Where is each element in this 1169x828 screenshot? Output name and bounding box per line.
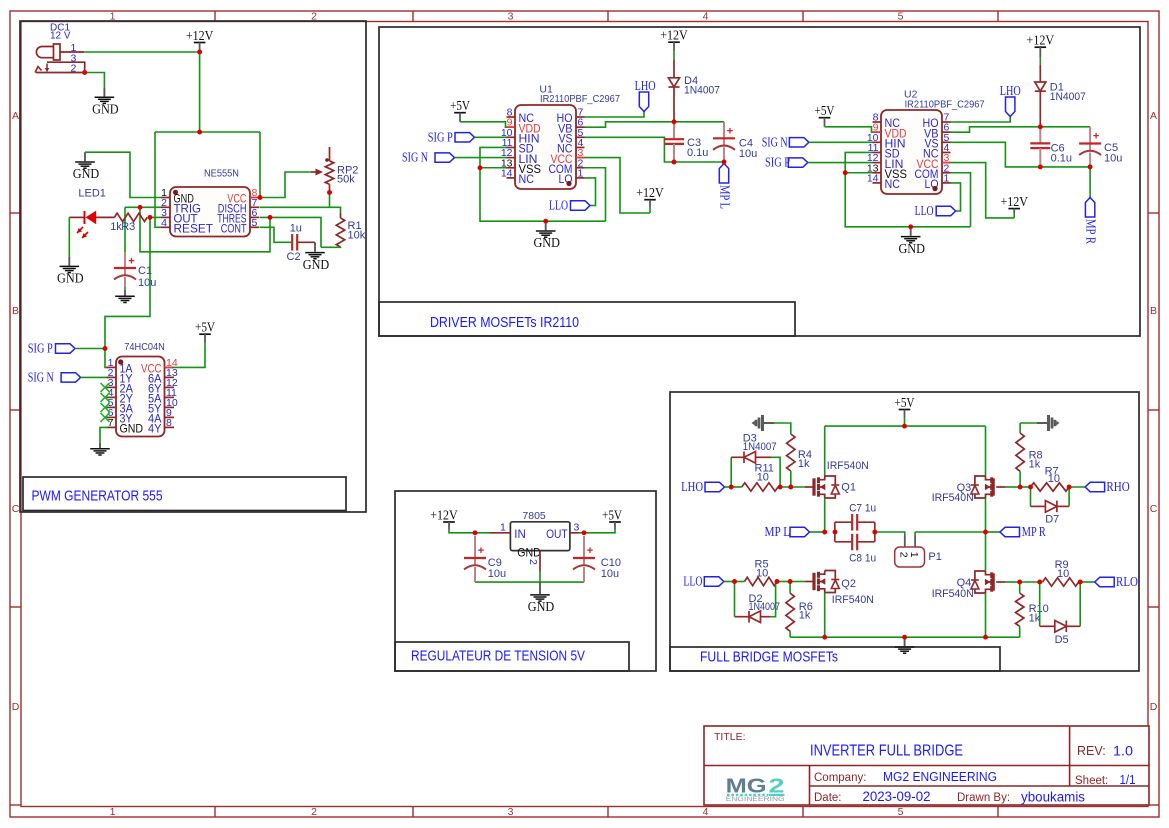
svg-text:1: 1 [110,806,116,818]
svg-text:LED1: LED1 [78,188,106,200]
svg-text:GND: GND [92,101,119,116]
svg-text:R3: R3 [121,221,135,233]
svg-text:+5V: +5V [450,98,470,113]
svg-text:IR2110PBF_C2967: IR2110PBF_C2967 [905,98,985,110]
svg-text:10u: 10u [488,568,506,580]
svg-text:GND: GND [533,235,560,250]
svg-text:10u: 10u [1104,152,1122,164]
svg-text:Q2: Q2 [841,578,856,590]
svg-text:NC: NC [885,177,901,191]
svg-text:+5V: +5V [602,507,622,522]
svg-text:+5V: +5V [195,320,215,335]
svg-text:Q1: Q1 [841,482,856,494]
svg-text:LLO: LLO [549,198,568,213]
svg-text:14: 14 [501,167,513,179]
svg-text:4: 4 [161,217,167,229]
svg-text:NC: NC [519,172,535,186]
svg-text:10: 10 [757,472,769,484]
svg-text:14: 14 [867,172,879,184]
svg-text:D: D [1150,701,1158,713]
svg-text:SIG N: SIG N [402,150,428,165]
svg-text:IRF540N: IRF540N [932,588,974,600]
svg-text:REGULATEUR DE TENSION 5V: REGULATEUR DE TENSION 5V [411,649,585,665]
svg-text:LHO: LHO [1000,83,1021,98]
svg-text:+: + [727,125,733,137]
svg-text:+12V: +12V [660,28,688,43]
svg-text:+12V: +12V [636,185,664,200]
svg-text:1: 1 [944,172,950,184]
svg-text:1: 1 [500,522,506,534]
svg-text:2: 2 [898,552,910,558]
svg-text:Date:: Date: [814,792,842,804]
svg-text:INVERTER FULL BRIDGE: INVERTER FULL BRIDGE [810,743,963,760]
svg-text:7805: 7805 [522,510,546,522]
svg-text:SIG N: SIG N [28,369,54,384]
svg-text:GND: GND [303,257,330,272]
svg-text:B: B [12,305,19,317]
svg-text:12 V: 12 V [50,31,71,42]
svg-text:A: A [12,110,19,122]
svg-text:3: 3 [574,522,580,534]
svg-text:MG2 ENGINEERING: MG2 ENGINEERING [883,769,997,784]
svg-text:+5V: +5V [815,103,835,118]
svg-text:3: 3 [508,806,514,818]
svg-text:10: 10 [1057,568,1069,580]
svg-text:GND: GND [528,599,555,614]
svg-text:2: 2 [71,63,77,75]
svg-text:SIG P: SIG P [428,129,453,144]
svg-text:LLO: LLO [683,574,702,589]
svg-text:10u: 10u [601,568,619,580]
svg-text:NE555N: NE555N [204,168,239,180]
svg-text:SIG N: SIG N [762,134,788,149]
svg-text:1k: 1k [1029,459,1041,471]
svg-text:1: 1 [578,167,584,179]
svg-text:1N4007: 1N4007 [749,601,781,613]
svg-text:1k: 1k [799,610,811,622]
svg-text:1N4007: 1N4007 [1050,91,1086,103]
svg-text:10u: 10u [739,148,757,160]
svg-text:MP L: MP L [765,524,791,539]
svg-text:C: C [1150,503,1158,515]
svg-text:Sheet:: Sheet: [1075,775,1108,787]
svg-text:LLO: LLO [915,203,934,218]
svg-text:2: 2 [527,559,539,565]
svg-text:+: + [478,545,484,557]
svg-text:2: 2 [311,806,317,818]
svg-text:74HC04N: 74HC04N [124,341,165,353]
svg-text:C8 1u: C8 1u [849,553,876,565]
svg-text:RESET: RESET [174,222,214,236]
svg-text:GND: GND [73,166,100,181]
svg-text:1: 1 [908,552,920,558]
svg-text:GND: GND [120,422,144,436]
svg-text:1.0: 1.0 [1113,743,1133,759]
svg-text:+: + [587,545,593,557]
svg-text:IN: IN [514,527,526,541]
svg-text:C7 1u: C7 1u [849,503,876,515]
svg-text:5: 5 [252,217,258,229]
svg-text:5: 5 [898,10,904,22]
svg-text:5: 5 [898,806,904,818]
svg-text:1k: 1k [798,458,810,470]
svg-text:+12V: +12V [1000,194,1028,209]
svg-text:4: 4 [703,10,709,22]
svg-text:+12V: +12V [186,28,214,43]
svg-text:LHO: LHO [681,479,703,494]
svg-text:ENGINEERING: ENGINEERING [726,796,785,803]
svg-text:LHO: LHO [635,78,656,93]
svg-text:7: 7 [108,417,114,429]
svg-text:+: + [128,256,134,268]
svg-text:SIG P: SIG P [28,341,53,356]
svg-text:P1: P1 [928,551,941,563]
svg-text:3: 3 [508,10,514,22]
svg-text:MP R: MP R [1084,219,1099,244]
svg-text:1N4007: 1N4007 [684,85,720,97]
svg-text:GND: GND [517,546,541,560]
svg-text:A: A [1150,110,1157,122]
svg-text:1u: 1u [290,223,302,235]
svg-text:TITLE:: TITLE: [714,731,746,743]
svg-text:IRF540N: IRF540N [832,594,874,606]
svg-text:GND: GND [57,271,84,286]
svg-text:GND: GND [898,241,925,256]
svg-text:PWM GENERATOR 555: PWM GENERATOR 555 [32,489,163,505]
svg-text:CONT: CONT [221,222,247,236]
svg-text:D: D [12,701,20,713]
svg-text:1/1: 1/1 [1120,772,1136,787]
svg-text:DRIVER MOSFETs IR2110: DRIVER MOSFETs IR2110 [430,315,579,331]
svg-text:+5V: +5V [895,395,915,410]
svg-text:8: 8 [166,417,172,429]
svg-text:2023-09-02: 2023-09-02 [863,789,931,804]
svg-text:D7: D7 [1045,513,1059,525]
svg-text:4Y: 4Y [148,422,162,436]
svg-text:+: + [1093,131,1099,143]
svg-text:D5: D5 [1055,634,1069,646]
svg-text:OUT: OUT [546,527,568,541]
svg-text:+12V: +12V [430,507,458,522]
svg-text:10: 10 [1048,473,1060,485]
svg-text:1N4007: 1N4007 [743,441,777,453]
svg-text:MP R: MP R [1022,524,1046,539]
svg-text:IRF540N: IRF540N [932,492,974,504]
svg-text:+12V: +12V [1027,33,1055,48]
svg-text:RLO: RLO [1116,574,1138,589]
svg-text:RHO: RHO [1106,479,1130,494]
svg-text:10u: 10u [138,277,156,289]
svg-text:C: C [12,503,20,515]
svg-text:4: 4 [703,806,709,818]
svg-text:0.1u: 0.1u [1051,152,1072,164]
svg-text:Company:: Company: [814,772,866,784]
svg-text:C2: C2 [287,251,301,263]
svg-text:IRF540N: IRF540N [827,460,869,472]
svg-text:B: B [1150,305,1157,317]
svg-text:50k: 50k [337,174,355,186]
svg-text:MP L: MP L [718,185,733,209]
svg-text:SIG P: SIG P [765,155,790,170]
svg-text:FULL BRIDGE MOSFETs: FULL BRIDGE MOSFETs [700,650,838,666]
svg-text:yboukamis: yboukamis [1021,790,1085,805]
svg-text:IR2110PBF_C2967: IR2110PBF_C2967 [540,93,620,105]
svg-text:REV:: REV: [1077,744,1106,758]
svg-text:Drawn By:: Drawn By: [957,792,1010,804]
svg-text:10k: 10k [348,230,366,242]
svg-text:0.1u: 0.1u [687,147,708,159]
svg-text:10: 10 [756,568,768,580]
